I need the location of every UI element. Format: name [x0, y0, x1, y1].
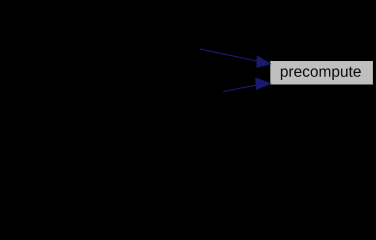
- wire edge2: [223, 78, 270, 92]
- node precompute: [270, 61, 373, 85]
- wire edge1: [200, 49, 270, 67]
